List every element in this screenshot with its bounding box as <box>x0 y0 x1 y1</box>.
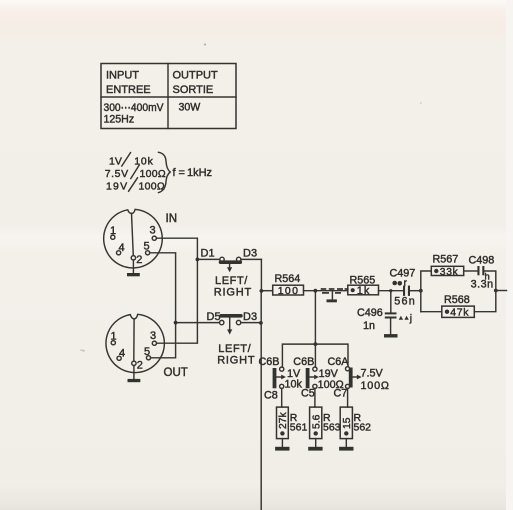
svg-text:INPUT: INPUT <box>106 70 139 82</box>
svg-text:OUT: OUT <box>164 367 188 379</box>
svg-text:C6A: C6A <box>328 356 350 368</box>
svg-text:4: 4 <box>119 242 125 254</box>
svg-text:R568: R568 <box>444 294 470 306</box>
svg-text:562: 562 <box>354 422 372 434</box>
svg-text:IN: IN <box>166 213 178 225</box>
svg-text:R567: R567 <box>433 253 459 265</box>
svg-text:100: 100 <box>278 285 299 297</box>
svg-text:5.6: 5.6 <box>311 414 322 429</box>
svg-text:R564: R564 <box>275 273 301 285</box>
svg-text:1: 1 <box>110 225 116 237</box>
svg-text:125Hz: 125Hz <box>104 114 135 126</box>
svg-text:7.5V: 7.5V <box>361 367 384 379</box>
svg-text:j: j <box>409 313 412 325</box>
svg-text:1V: 1V <box>109 156 122 168</box>
svg-text:C6B: C6B <box>259 356 280 368</box>
svg-text:2: 2 <box>137 359 143 371</box>
svg-text:C498: C498 <box>469 254 495 266</box>
svg-text:1n: 1n <box>363 320 375 332</box>
svg-text:3.3n: 3.3n <box>471 278 494 290</box>
svg-text:=: = <box>179 167 185 179</box>
svg-text:2: 2 <box>136 254 142 266</box>
svg-text:100Ω: 100Ω <box>140 168 167 180</box>
svg-text:D3: D3 <box>243 311 257 323</box>
svg-text:300⋯400mV: 300⋯400mV <box>104 102 165 114</box>
svg-text:5: 5 <box>144 346 150 358</box>
svg-text:3: 3 <box>150 225 156 237</box>
svg-text:OUTPUT: OUTPUT <box>173 70 219 82</box>
svg-text:SORTIE: SORTIE <box>173 84 214 96</box>
svg-text:15: 15 <box>342 417 353 429</box>
svg-text:1: 1 <box>111 331 117 343</box>
svg-text:47k: 47k <box>450 307 469 319</box>
svg-text:10k: 10k <box>285 378 303 390</box>
svg-text:1k: 1k <box>357 285 371 297</box>
svg-text:7.5V: 7.5V <box>105 168 129 180</box>
svg-text:19V: 19V <box>319 368 339 380</box>
svg-text:C8: C8 <box>264 390 278 402</box>
svg-text:27k: 27k <box>278 412 289 429</box>
svg-text:RIGHT: RIGHT <box>214 286 252 298</box>
svg-text:19V: 19V <box>106 181 128 193</box>
svg-text:LEFT/: LEFT/ <box>218 343 251 355</box>
svg-text:4: 4 <box>119 348 125 360</box>
svg-text:1kHz: 1kHz <box>187 167 212 179</box>
svg-text:56n: 56n <box>394 296 416 308</box>
svg-text:RIGHT: RIGHT <box>217 354 255 366</box>
svg-text:C7: C7 <box>334 388 348 400</box>
svg-text:C5: C5 <box>301 388 315 400</box>
svg-text:100Ω: 100Ω <box>361 380 390 392</box>
svg-text:33k: 33k <box>440 267 459 278</box>
svg-text:10k: 10k <box>134 156 153 168</box>
svg-text:C6B: C6B <box>293 356 314 368</box>
svg-text:561: 561 <box>290 422 308 434</box>
svg-text:LEFT/: LEFT/ <box>215 275 248 287</box>
svg-text:D1: D1 <box>201 248 215 260</box>
svg-text:5: 5 <box>144 241 150 253</box>
svg-text:D5: D5 <box>207 311 221 323</box>
svg-text:C496: C496 <box>357 307 383 319</box>
svg-text:ENTREE: ENTREE <box>106 84 151 96</box>
svg-text:C497: C497 <box>390 268 416 280</box>
svg-text:D3: D3 <box>243 248 257 260</box>
svg-text:3: 3 <box>150 330 156 342</box>
svg-text:563: 563 <box>323 422 341 434</box>
svg-text:30W: 30W <box>179 102 201 114</box>
